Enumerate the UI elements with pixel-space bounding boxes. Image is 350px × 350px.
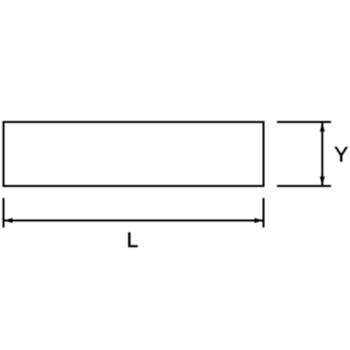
label L — [128, 233, 137, 247]
Y dimension top arrowhead — [320, 123, 325, 132]
L dimension left extension line — [3, 198, 5, 228]
L dimension right extension line — [263, 198, 265, 228]
label Y — [335, 147, 348, 161]
L dimension left arrowhead — [4, 218, 13, 223]
Y dimension bottom extension line — [277, 185, 331, 187]
L dimension line — [4, 220, 264, 222]
Y dimension bottom arrowhead — [320, 177, 325, 186]
Y dimension top extension line — [277, 121, 331, 123]
L dimension right arrowhead — [255, 218, 264, 223]
rectangle body (bar outline) — [4, 122, 264, 186]
Y dimension line — [321, 123, 323, 186]
